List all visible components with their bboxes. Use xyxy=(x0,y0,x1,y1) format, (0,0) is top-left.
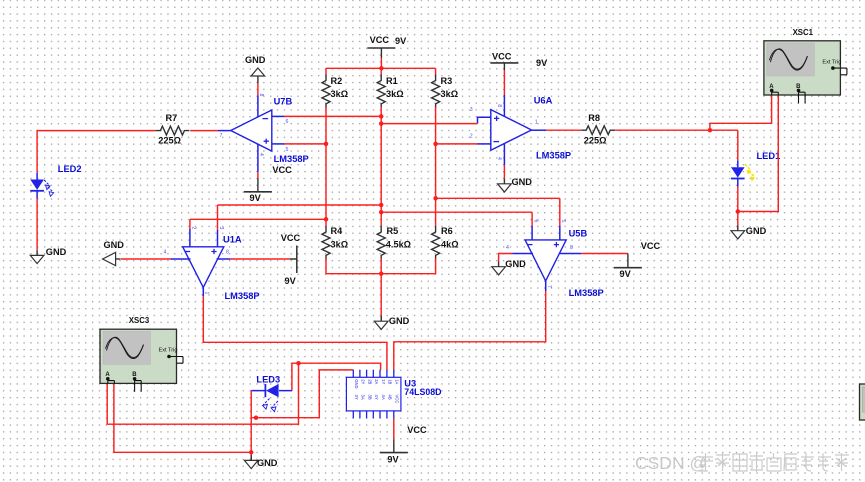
svg-text:2Y: 2Y xyxy=(361,379,366,384)
ground left of U1A xyxy=(103,252,121,265)
U1A out stub xyxy=(202,287,204,296)
wire rowB R1col to U5B- xyxy=(381,211,532,213)
U1A pin4 stub xyxy=(171,258,191,260)
svg-text:R5: R5 xyxy=(387,226,399,236)
ground bottom xyxy=(244,455,258,468)
vcc stem down xyxy=(257,178,259,192)
junction rowB / R1 col xyxy=(379,210,384,215)
svg-text:3Y: 3Y xyxy=(354,395,359,400)
wire U7B- to R1col xyxy=(284,115,381,117)
U6A out stub xyxy=(532,129,547,131)
U7B pin5 stub xyxy=(272,143,284,145)
wire R4R5R6 bottom rail xyxy=(326,258,436,273)
svg-text:GND: GND xyxy=(245,55,266,65)
svg-text:LED3: LED3 xyxy=(256,374,280,384)
oscilloscope XSC1 xyxy=(764,41,847,104)
svg-text:8: 8 xyxy=(258,94,264,97)
svg-text:4: 4 xyxy=(258,153,264,156)
svg-text:VCC: VCC xyxy=(407,425,427,435)
wire U7B+ to R2col xyxy=(284,143,326,145)
ground below U6A xyxy=(498,179,512,192)
wire U1A vplus to vcc xyxy=(230,258,290,260)
junction U6A+ / R1 col xyxy=(379,121,384,126)
wire R2-R4 column xyxy=(325,107,327,226)
svg-text:225Ω: 225Ω xyxy=(158,136,181,146)
svg-text:VCC: VCC xyxy=(395,395,400,404)
junction rowD / R3 col xyxy=(433,196,438,201)
svg-text:GND: GND xyxy=(505,259,526,269)
U7B vplus pin xyxy=(257,95,259,117)
svg-text:4A: 4A xyxy=(381,395,386,400)
junction U6A- / R3 col xyxy=(433,142,438,147)
wire LED1 to ground xyxy=(737,187,739,226)
ground left of U5B xyxy=(492,262,506,275)
svg-text:2: 2 xyxy=(190,227,196,230)
svg-text:3: 3 xyxy=(218,227,224,230)
wire vcc to rail xyxy=(380,58,382,68)
wire U6A+ to R1col xyxy=(381,123,477,125)
wire LED3 anode up xyxy=(292,363,299,390)
op-amp U6A xyxy=(491,110,532,151)
LED LED1 xyxy=(731,160,755,186)
svg-text:4Y: 4Y xyxy=(374,395,379,400)
U7B pin6 stub xyxy=(272,115,284,117)
U6A vminus pin xyxy=(503,143,505,165)
svg-text:3: 3 xyxy=(470,107,473,113)
wire rowC U1A- to R2col xyxy=(190,218,326,220)
wire to XSC1 A+ xyxy=(710,95,772,130)
wire U6A bottom to gnd xyxy=(503,165,505,179)
junction gnd/chip-gnd xyxy=(254,415,259,420)
junction U7B- / R1 col xyxy=(379,114,384,119)
gnd stem mid xyxy=(380,316,382,321)
svg-text:U1A: U1A xyxy=(223,234,242,244)
svg-text:9V: 9V xyxy=(387,454,399,464)
svg-text:2B: 2B xyxy=(367,379,372,384)
vcc pin stub xyxy=(380,48,382,58)
resistor R1 body xyxy=(377,75,385,108)
svg-text:R3: R3 xyxy=(441,76,453,86)
wire U5B- up xyxy=(531,212,533,226)
svg-text:R7: R7 xyxy=(166,113,178,123)
vcc bar xyxy=(367,47,395,49)
svg-text:LED1: LED1 xyxy=(757,151,781,161)
resistor R4 body xyxy=(322,226,330,259)
oscilloscope XSC3 xyxy=(100,329,183,392)
svg-text:225Ω: 225Ω xyxy=(584,135,607,145)
U1A pin3 stub xyxy=(217,230,219,247)
svg-text:LM358P: LM358P xyxy=(569,288,604,298)
wire U5B out to U3 1A xyxy=(394,291,546,370)
vcc bar xyxy=(380,452,408,454)
svg-text:6: 6 xyxy=(286,119,289,125)
ground below LED2 xyxy=(30,250,44,263)
junction U7B+ / R2 col xyxy=(324,142,329,147)
op-amp U1A xyxy=(183,247,224,288)
wire U1A+ up xyxy=(217,205,219,230)
svg-text:1B: 1B xyxy=(388,379,393,384)
svg-text:R1: R1 xyxy=(386,76,398,86)
U5B pin4 stub xyxy=(512,253,533,255)
wire XSC3 A- to ground xyxy=(114,384,251,453)
svg-text:4kΩ: 4kΩ xyxy=(441,240,459,250)
wire rowA U1A+ to R1col xyxy=(218,204,382,206)
svg-text:Ext Trig: Ext Trig xyxy=(822,59,841,65)
svg-text:R6: R6 xyxy=(441,226,453,236)
svg-text:GND: GND xyxy=(512,177,533,187)
ground below R5 rail xyxy=(374,316,388,329)
vcc stem xyxy=(503,63,505,70)
svg-text:3kΩ: 3kΩ xyxy=(441,89,459,99)
resistor R5 body xyxy=(377,226,385,259)
junction LED3/1Y/scope xyxy=(296,361,301,366)
svg-text:GND: GND xyxy=(104,240,125,250)
wire R1 top stub xyxy=(380,68,382,74)
svg-text:R4: R4 xyxy=(331,226,344,236)
junction R8/scopeA xyxy=(708,128,713,133)
wire U5B vplus to vcc xyxy=(581,253,628,255)
svg-text:VCC: VCC xyxy=(370,35,390,45)
svg-text:3kΩ: 3kΩ xyxy=(331,89,349,99)
vcc stem chip xyxy=(393,439,395,452)
power VCC 9V right of U1A xyxy=(290,246,297,274)
wire U3 GND pin to ground xyxy=(251,370,353,418)
junction rail/R1 xyxy=(379,66,384,71)
U1A pin2 stub xyxy=(189,229,191,247)
svg-text:9V: 9V xyxy=(285,276,297,286)
svg-text:VCC: VCC xyxy=(272,165,292,175)
wire R1-R5 column xyxy=(380,107,382,226)
U7B vminus pin xyxy=(257,144,259,173)
IC U3 74LS08D xyxy=(346,370,401,418)
svg-text:U5B: U5B xyxy=(569,228,588,238)
resistor R6 body xyxy=(432,226,440,259)
wire U3 VCC pin down xyxy=(393,418,395,439)
svg-text:8: 8 xyxy=(570,245,573,251)
ground above U7B xyxy=(251,68,265,76)
svg-text:9V: 9V xyxy=(536,58,548,68)
U5B out stub xyxy=(545,281,547,291)
svg-text:3B: 3B xyxy=(367,395,372,400)
wire down to LED1 xyxy=(737,130,739,160)
junction gnd/scopeA- xyxy=(249,450,254,455)
svg-text:U6A: U6A xyxy=(534,96,553,106)
wire R7 to LED2 xyxy=(37,131,155,173)
svg-text:GND: GND xyxy=(46,247,67,257)
wire node to XSC3 A+ xyxy=(107,363,298,424)
svg-text:8: 8 xyxy=(496,104,502,107)
svg-text:4: 4 xyxy=(164,250,167,256)
svg-text:LM358P: LM358P xyxy=(225,291,260,301)
wire U1A- up xyxy=(189,219,191,229)
wire U7B bottom xyxy=(257,172,259,178)
svg-text:5: 5 xyxy=(560,220,566,223)
wire to XSC1 A- xyxy=(738,95,779,212)
vcc bar xyxy=(614,267,642,269)
resistor R8 body xyxy=(581,126,615,135)
svg-text:1Y: 1Y xyxy=(381,379,386,384)
junction LED1/scopeA- xyxy=(736,209,741,214)
op-amp U5B xyxy=(525,240,566,281)
wire R5 bottom stub xyxy=(380,258,382,273)
wire U1A vminus to gnd arrow xyxy=(121,258,171,260)
wire R3-R6 column xyxy=(435,107,437,226)
vcc bar xyxy=(244,191,272,193)
svg-text:2: 2 xyxy=(470,133,473,139)
svg-text:4.5kΩ: 4.5kΩ xyxy=(386,240,411,250)
svg-text:2A: 2A xyxy=(374,379,379,384)
wire U7B top to gnd xyxy=(257,83,259,95)
wire U1A out to U3 1B xyxy=(203,296,387,370)
svg-text:5: 5 xyxy=(286,147,289,153)
U1A pin8 stub xyxy=(217,258,231,260)
op-amp U7B xyxy=(231,110,272,151)
wire U5B+ up xyxy=(559,198,561,226)
wire U6A- to R3col xyxy=(436,143,478,145)
wire U6A top to vcc xyxy=(503,70,505,95)
svg-text:6: 6 xyxy=(533,220,539,223)
svg-text:9V: 9V xyxy=(395,36,407,46)
U6A pin3 stub xyxy=(478,117,491,123)
gnd stem bottom xyxy=(250,455,252,460)
resistor R2 body xyxy=(322,75,330,108)
wire rail to ground xyxy=(380,274,382,316)
U6A vplus pin xyxy=(503,95,505,117)
svg-text:3A: 3A xyxy=(361,395,366,400)
wire U7B out to R7 xyxy=(190,130,218,132)
U5B pin8 stub xyxy=(559,253,581,255)
U5B pin5 stub xyxy=(559,226,561,240)
svg-text:74LS08D: 74LS08D xyxy=(404,387,441,397)
svg-text:8: 8 xyxy=(226,250,229,256)
LED LED2 xyxy=(30,173,53,199)
wire R1R2R3 top rail xyxy=(326,67,436,69)
svg-text:VCC: VCC xyxy=(641,241,661,251)
svg-text:1: 1 xyxy=(535,120,538,126)
wire LED2 to ground xyxy=(36,199,38,250)
svg-text:GND: GND xyxy=(257,458,278,468)
svg-text:1A: 1A xyxy=(395,379,400,384)
svg-text:R2: R2 xyxy=(331,76,343,86)
svg-text:GND: GND xyxy=(746,226,767,236)
svg-text:Ext Trig: Ext Trig xyxy=(159,348,178,354)
svg-text:4: 4 xyxy=(506,245,509,251)
U7B out stub xyxy=(218,130,231,132)
svg-text:GND: GND xyxy=(354,379,359,388)
vcc stem right xyxy=(627,254,629,268)
wire LED3 cathode to ground xyxy=(250,391,252,455)
wire U5B vminus to gnd xyxy=(499,254,512,262)
svg-text:9V: 9V xyxy=(620,269,632,279)
svg-text:XSC1: XSC1 xyxy=(793,28,814,37)
wire node to U3 1Y xyxy=(299,363,381,370)
junction rowA / R1 col xyxy=(379,203,384,208)
U5B pin6 stub xyxy=(531,226,533,240)
svg-text:7: 7 xyxy=(220,133,223,139)
wire rowD R3col to U5B+ xyxy=(436,197,560,199)
U6A pin2 stub xyxy=(478,143,491,145)
svg-text:7: 7 xyxy=(546,285,552,288)
svg-text:LM358P: LM358P xyxy=(274,154,309,164)
svg-text:3kΩ: 3kΩ xyxy=(331,240,349,250)
svg-text:VCC: VCC xyxy=(492,52,512,62)
svg-text:GND: GND xyxy=(389,316,410,326)
svg-text:R8: R8 xyxy=(588,113,600,123)
junction rail/gnd xyxy=(379,271,384,276)
svg-text:LED2: LED2 xyxy=(58,164,82,174)
junction rowC / R2 col xyxy=(324,217,329,222)
svg-text:4: 4 xyxy=(496,157,502,160)
vcc bar xyxy=(490,62,518,64)
svg-text:3kΩ: 3kΩ xyxy=(386,89,404,99)
wire U6A out to R8 xyxy=(546,129,581,131)
svg-text:U7B: U7B xyxy=(274,97,293,107)
ground below LED1 xyxy=(731,226,745,239)
wire R2 top stub xyxy=(325,68,327,74)
wire R3 top stub xyxy=(435,68,437,74)
svg-text:9V: 9V xyxy=(250,193,262,203)
resistor R3 body xyxy=(432,75,440,108)
wire R8 to LED1 xyxy=(615,129,738,131)
svg-text:VCC: VCC xyxy=(281,233,301,243)
resistor R7 body xyxy=(155,126,189,135)
svg-text:CSDN @: CSDN @ xyxy=(635,453,707,473)
svg-text:XSC3: XSC3 xyxy=(129,316,150,325)
svg-text:1: 1 xyxy=(204,292,210,295)
LED LED3 (points left) xyxy=(251,384,292,412)
svg-text:4B: 4B xyxy=(388,395,393,400)
watermark CSDN xyxy=(635,453,849,473)
svg-text:LM358P: LM358P xyxy=(536,150,571,160)
instrument cut off at right edge xyxy=(860,384,865,420)
gnd stem xyxy=(257,76,259,83)
